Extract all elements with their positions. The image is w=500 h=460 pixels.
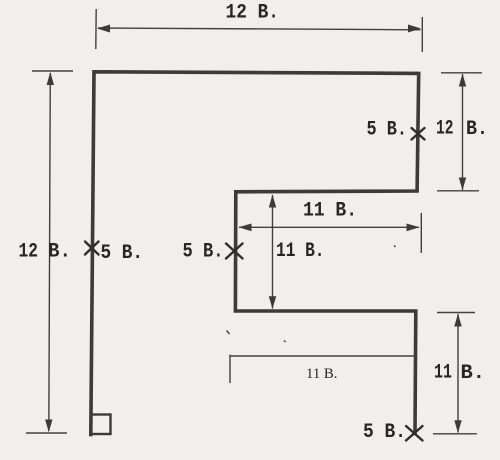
svg-text:B.: B. [466,118,488,141]
svg-text:11 B.: 11 B. [306,366,338,382]
svg-text:5 B.: 5 B. [367,119,408,142]
svg-text:12: 12 [436,118,454,141]
svg-text:12: 12 [19,241,39,264]
svg-text:11 B.: 11 B. [276,240,325,263]
svg-text:11 B.: 11 B. [303,200,357,223]
svg-text:5 B.: 5 B. [363,421,406,444]
svg-text:B.: B. [48,241,71,264]
svg-text:5 B.: 5 B. [183,241,224,264]
svg-text:5 B.: 5 B. [101,242,144,265]
svg-text:12 B.: 12 B. [226,2,280,25]
svg-text:11: 11 [434,362,452,385]
svg-text:B.: B. [461,362,486,385]
